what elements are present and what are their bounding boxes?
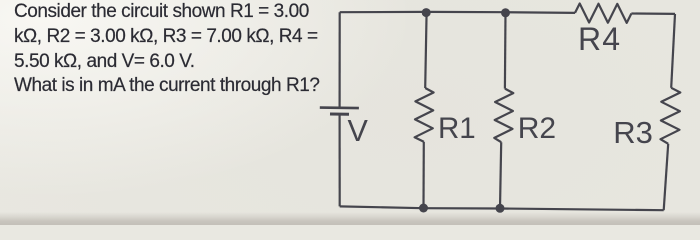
wire bottom bbox=[340, 206, 664, 210]
label R1 bbox=[438, 114, 476, 144]
wire top bbox=[340, 12, 575, 13]
label V bbox=[348, 116, 368, 147]
wire left upper bbox=[339, 12, 341, 107]
wire right upper bbox=[671, 14, 675, 88]
label R3 bbox=[613, 117, 653, 148]
wire right lower bbox=[664, 144, 669, 210]
node top-left junction bbox=[422, 8, 431, 17]
battery V plate long bbox=[320, 106, 359, 109]
node bottom-left junction bbox=[419, 204, 428, 213]
resistor R4 bbox=[575, 4, 631, 23]
battery V plate short bbox=[330, 113, 349, 116]
label R2 bbox=[518, 114, 556, 144]
wire left lower bbox=[339, 114, 341, 206]
resistor R1 bbox=[415, 88, 434, 142]
node top-right junction bbox=[501, 8, 510, 17]
wire branch R1 bbox=[425, 12, 426, 88]
wire top-right bbox=[631, 12, 675, 15]
question text bbox=[14, 0, 354, 98]
node bottom-right junction bbox=[496, 204, 505, 213]
wire branch R2 lower bbox=[500, 142, 501, 208]
wire branch R1 lower bbox=[422, 142, 424, 208]
resistor R2 bbox=[494, 89, 513, 143]
wire branch R2 bbox=[504, 12, 507, 88]
label R4 bbox=[578, 23, 621, 55]
resistor R3 bbox=[661, 88, 681, 144]
